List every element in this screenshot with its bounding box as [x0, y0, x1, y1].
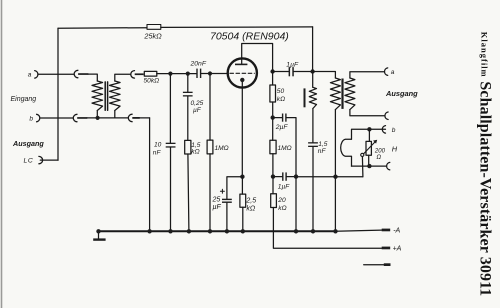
wire ground riser to bus [295, 177, 297, 232]
node bus ground riser [294, 229, 298, 233]
plug jack P1 [74, 70, 78, 78]
transformer T1 core [104, 82, 106, 110]
bus ground line [99, 230, 336, 232]
svg-text:2µF: 2µF [275, 124, 289, 131]
transformer T1 secondary winding [110, 81, 121, 111]
wire top feedback left [58, 27, 147, 30]
node bus 1,5k [187, 229, 191, 233]
choke L1 core [304, 88, 306, 107]
wire 2uF to ground riser [287, 118, 296, 177]
wire LC to left riser [40, 159, 58, 161]
wire cathode to 25uF [227, 177, 243, 199]
wire cathode lead [241, 82, 243, 177]
wire b to plug [40, 117, 73, 119]
svg-text:2,5: 2,5 [245, 198, 256, 205]
svg-text:-A: -A [393, 228, 400, 235]
node grid leak [208, 71, 212, 75]
ground bar [93, 238, 105, 240]
node pot bottom [367, 164, 371, 168]
wire anode node to 1uF coupling [273, 71, 289, 73]
svg-text:kΩ: kΩ [278, 205, 286, 212]
wire riser x150 to bus [149, 118, 151, 231]
svg-text:1MΩ: 1MΩ [278, 145, 292, 152]
terminal a output [385, 68, 388, 76]
capacitor 25uF electrolytic [222, 199, 232, 200]
node anode out [270, 69, 274, 73]
wire -A lead [336, 230, 382, 231]
svg-text:Schallplatten-Verstärker 30911: Schallplatten-Verstärker 30911 [477, 81, 494, 296]
svg-text:nF: nF [318, 148, 327, 155]
svg-text:0,25: 0,25 [191, 100, 204, 107]
wire ground line to plug P3 [98, 117, 129, 119]
wire b to bump [352, 129, 386, 139]
capacitor 1uF coupling [289, 67, 291, 76]
wire 10nF branch lower [170, 148, 172, 232]
node bus cathode [241, 229, 245, 233]
resistor 50k anode [270, 85, 276, 102]
plug jack P2 [73, 114, 77, 122]
tube grid dashes [230, 72, 255, 74]
node 10nF tap [168, 72, 172, 76]
transformer T2 primary winding [330, 78, 340, 110]
wire 50k to grid [157, 73, 197, 75]
terminal headphone bottom [387, 162, 390, 170]
resistor 20k [271, 194, 277, 208]
rheostat wiper contact [361, 153, 364, 156]
node T1 bottom [96, 116, 100, 120]
node screen divider [271, 115, 275, 119]
rheostat 200 ohm [366, 141, 371, 155]
wire plug to node [87, 117, 97, 119]
terminal b input [37, 114, 40, 122]
wire grid leak lower [209, 154, 211, 231]
rheostat arrow [363, 142, 375, 154]
wire anode node to 50k [272, 72, 274, 86]
svg-text:kΩ: kΩ [246, 206, 256, 213]
tube anode bar [235, 64, 247, 66]
svg-text:10: 10 [154, 141, 162, 148]
svg-text:20: 20 [277, 197, 286, 204]
svg-text:kΩ: kΩ [191, 149, 199, 156]
svg-text:20nF: 20nF [190, 61, 207, 68]
terminal a input [35, 71, 38, 79]
node bus left [96, 229, 100, 233]
tube V1 envelope [228, 58, 257, 87]
wire P3 to riser [140, 117, 150, 119]
svg-text:Ω: Ω [376, 154, 381, 161]
page left edge [1, 0, 3, 308]
wire node to 1uF chain [273, 176, 282, 178]
terminal bar -A [382, 229, 391, 232]
wire 1,5k to bus [188, 154, 189, 231]
svg-text:+A: +A [393, 245, 402, 252]
resistor 50k series [144, 71, 157, 76]
wire choke to 1,5nF [312, 109, 314, 143]
svg-text:a: a [391, 69, 395, 76]
node bus 25uF [225, 229, 229, 233]
wire feedback drop [312, 27, 314, 72]
wire 10nF branch upper [169, 74, 171, 143]
wire spare lead [364, 264, 384, 266]
svg-text:70504 (REN904): 70504 (REN904) [210, 31, 289, 43]
terminal bar spare [384, 263, 391, 266]
resistor 1,5k [185, 140, 191, 154]
svg-text:b: b [29, 116, 33, 123]
wire cathode to 2,5k [241, 177, 243, 194]
node pot top [367, 127, 371, 131]
wire anode lead [242, 44, 273, 72]
svg-text:nF: nF [153, 150, 162, 157]
capacitor 10nF [166, 143, 176, 144]
svg-text:50: 50 [277, 88, 285, 95]
wire grid leak upper [209, 74, 211, 141]
wire 1uF to ground riser [287, 176, 296, 178]
svg-text:a: a [28, 71, 32, 78]
svg-text:b: b [392, 127, 396, 134]
svg-text:25kΩ: 25kΩ [143, 32, 162, 41]
wire 2,5k to bus [242, 207, 244, 231]
terminal bar +A [382, 247, 391, 250]
wire top feedback right [161, 26, 313, 29]
terminal mid output [385, 112, 388, 120]
wire 1uF to output node [294, 71, 313, 73]
node bus 10nF [168, 229, 172, 233]
headphone bump [341, 139, 352, 166]
transformer T1 primary winding [92, 81, 103, 111]
node ground riser [294, 174, 298, 178]
wire plug to transformer [88, 74, 97, 81]
wire 20nF to tube grid [201, 73, 227, 75]
wire output node to choke [312, 72, 314, 88]
svg-text:µF: µF [213, 204, 222, 211]
resistor 1M chain [270, 140, 276, 154]
wire a to plug [39, 73, 75, 75]
svg-text:H: H [392, 144, 398, 153]
capacitor 1,5nF [308, 142, 318, 143]
svg-text:Klangfilm: Klangfilm [479, 32, 489, 78]
wire 1M to node [272, 154, 274, 177]
node 0,25uF tap [186, 72, 190, 76]
resistor 2,5k [240, 194, 246, 207]
wire node to 2uF [273, 117, 282, 119]
wire 0,25uF branch upper [187, 74, 189, 92]
resistor 25k [147, 25, 161, 30]
svg-text:LC: LC [24, 158, 34, 165]
wire 1,5nF to bus [312, 147, 314, 231]
node bus T2 [333, 229, 337, 233]
svg-text:1µF: 1µF [278, 184, 290, 191]
capacitor 0,25uF [183, 92, 193, 93]
svg-text:50kΩ: 50kΩ [144, 77, 160, 84]
choke L1 winding [309, 87, 316, 108]
wire output node to T2 [313, 72, 336, 79]
svg-text:1µF: 1µF [286, 61, 299, 68]
transformer T2 secondary winding [345, 78, 355, 110]
capacitor 1uF chain [282, 172, 283, 180]
wire T2 secondary bottom to terminal [350, 110, 384, 116]
plus sign 25uF [220, 189, 224, 193]
svg-text:1MΩ: 1MΩ [215, 145, 229, 152]
wire 50k to node [272, 102, 274, 118]
wire T1 primary bottom [96, 111, 98, 118]
wire T2 primary bottom [334, 110, 336, 232]
svg-text:25: 25 [212, 197, 221, 204]
terminal b headphone [382, 126, 385, 134]
wire headphone bottom [352, 165, 386, 167]
svg-text:µF: µF [193, 107, 202, 114]
wire pot top [368, 129, 370, 141]
capacitor 20nF [196, 69, 197, 78]
wire 25uF to bus [226, 203, 228, 231]
node bus 1,5nF [311, 229, 315, 233]
wire wiper down [361, 157, 364, 177]
wire 0,25uF to 1,5k [187, 97, 189, 141]
node divider lower [271, 174, 275, 178]
node output [310, 69, 314, 73]
node T2 bottom hum line [333, 175, 337, 179]
wire 20k to +A [273, 208, 381, 249]
svg-text:kΩ: kΩ [277, 96, 285, 103]
plug jack P3 ground line [128, 114, 132, 122]
node bus x150 [147, 229, 151, 233]
node cathode junction [240, 175, 244, 179]
ground stub [98, 231, 100, 238]
wire left riser [57, 28, 59, 160]
transformer T2 core [341, 79, 343, 109]
wire node to 20k [272, 177, 274, 194]
terminal LC [39, 156, 43, 163]
wire T1 secondary top [115, 74, 131, 81]
wire node to 1M [272, 118, 274, 141]
node bus 1M [208, 229, 212, 233]
capacitor 2uF [282, 114, 283, 122]
tube cathode dot [240, 78, 244, 82]
wire hum pot line [296, 176, 363, 178]
svg-text:Eingang: Eingang [11, 96, 37, 103]
svg-text:Ausgang: Ausgang [385, 89, 418, 98]
wire T2 secondary top to terminal [350, 72, 384, 78]
wire T1 secondary bottom [114, 111, 116, 118]
wire pot bottom [368, 155, 370, 166]
svg-text:Ausgang: Ausgang [12, 139, 44, 148]
resistor 1M grid leak [207, 140, 213, 154]
plug jack P4 secondary top [131, 71, 135, 79]
